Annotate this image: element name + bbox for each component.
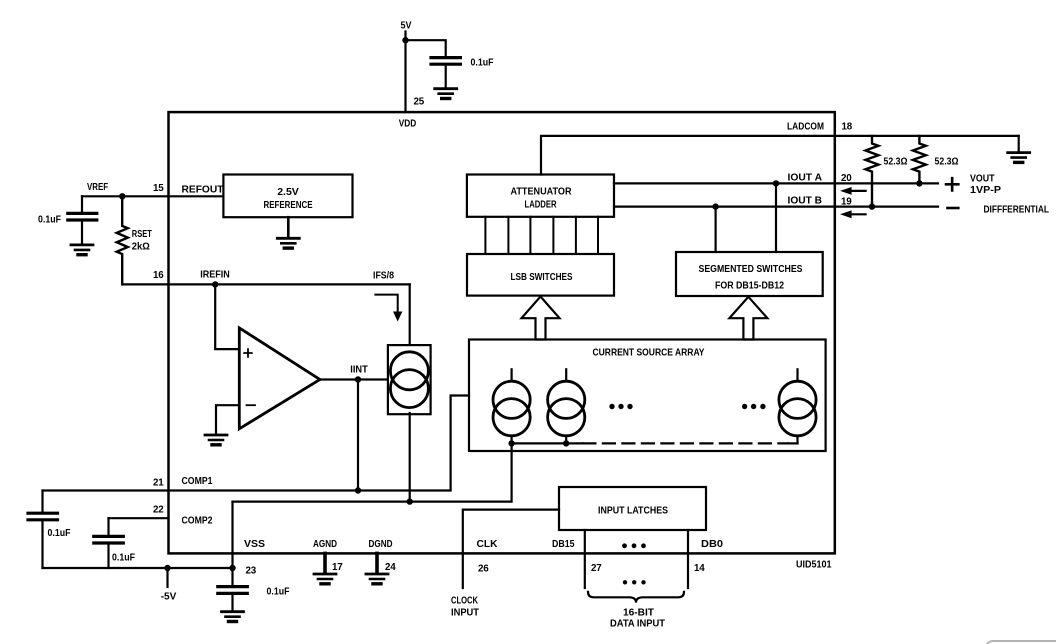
- block arrow to segmented switches: [729, 297, 767, 340]
- wire 5V to bypass cap: [406, 40, 446, 56]
- wire CLK elbow: [463, 510, 559, 588]
- wire reference to ground: [287, 217, 290, 237]
- wire cap C5 to ground: [231, 595, 233, 610]
- svg-text:24: 24: [385, 562, 396, 573]
- svg-text:VOUT: VOUT: [970, 174, 995, 185]
- capacitor C2 0.1uF: [68, 213, 97, 220]
- block ATTENUATOR LADDER: [467, 175, 614, 217]
- svg-text:VDD: VDD: [399, 119, 417, 130]
- svg-text:DB0: DB0: [701, 539, 723, 550]
- svg-text:23: 23: [246, 566, 257, 577]
- wire op-amp output IINT: [320, 378, 388, 380]
- svg-text:27: 27: [591, 563, 602, 574]
- node VREF junction: [119, 193, 125, 199]
- node array A2: [563, 440, 569, 446]
- capacitor C1 0.1uF: [431, 58, 460, 65]
- arrow IFS/8: [375, 295, 402, 322]
- svg-text:IINT: IINT: [350, 365, 368, 376]
- svg-text:CLOCK: CLOCK: [451, 596, 479, 607]
- wire cap C2 to ground: [81, 222, 83, 244]
- op-amp minus sign: [247, 404, 256, 406]
- svg-text:REFOUT: REFOUT: [182, 185, 224, 196]
- block SEGMENTED SWITCHES: [676, 252, 823, 296]
- ground (op-amp): [205, 435, 227, 445]
- svg-text:1VP-P: 1VP-P: [970, 185, 1001, 196]
- block arrow to LSB switches: [522, 297, 560, 340]
- wire DB0 pin 14: [687, 530, 689, 588]
- svg-text:16: 16: [153, 270, 164, 281]
- current source IFS/8 box: [388, 345, 431, 414]
- svg-text:LADDER: LADDER: [525, 199, 557, 211]
- svg-text:REFERENCE: REFERENCE: [264, 199, 313, 211]
- wire cap C4 to rail: [107, 545, 109, 568]
- ground (LADCOM): [1008, 153, 1030, 163]
- wire -5V stub: [166, 568, 168, 587]
- wire LADCOM rail: [541, 136, 1019, 175]
- wire COMP2 to cap: [107, 518, 109, 535]
- svg-text:AGND: AGND: [313, 539, 337, 550]
- node VSS pin 23 junction: [229, 565, 235, 571]
- svg-text:14: 14: [694, 563, 705, 574]
- svg-text:INPUT: INPUT: [451, 608, 479, 619]
- node R2 to IOUT A: [916, 180, 922, 186]
- wire COMP1 to cap: [41, 491, 43, 512]
- wire COMP2 pin 22 line: [109, 517, 169, 519]
- svg-text:COMP2: COMP2: [182, 516, 213, 527]
- svg-text:DGND: DGND: [369, 539, 393, 550]
- node R1 to IOUT B: [869, 203, 875, 209]
- svg-text:DIFFFERENTIAL: DIFFFERENTIAL: [984, 205, 1050, 216]
- brace 16-bit data input: [588, 592, 684, 603]
- svg-text:2kΩ: 2kΩ: [132, 242, 150, 253]
- svg-text:5V: 5V: [401, 21, 412, 32]
- svg-text:0.1uF: 0.1uF: [267, 587, 290, 598]
- svg-text:0.1uF: 0.1uF: [38, 215, 61, 226]
- node IREFIN junction: [212, 281, 218, 287]
- svg-text:UID5101: UID5101: [796, 560, 832, 571]
- op-amp U1: [239, 328, 320, 429]
- dots ellipsis data bus lower: [623, 580, 646, 584]
- wire IOUT A to segmented switches: [775, 183, 777, 252]
- wire VREF to cap: [81, 196, 83, 212]
- minus output symbol: [948, 207, 959, 210]
- ground (C5): [222, 612, 244, 622]
- pin DGND stub: [375, 553, 379, 572]
- svg-text:VSS: VSS: [244, 539, 265, 550]
- svg-text:IOUT B: IOUT B: [788, 196, 823, 207]
- svg-text:21: 21: [153, 478, 164, 489]
- ground (C1): [435, 89, 457, 99]
- svg-text:0.1uF: 0.1uF: [112, 553, 135, 564]
- svg-text:IREFIN: IREFIN: [200, 270, 230, 281]
- svg-text:2.5V: 2.5V: [277, 186, 299, 198]
- svg-text:DB15: DB15: [552, 539, 575, 550]
- svg-text:52.3Ω: 52.3Ω: [935, 157, 959, 168]
- ground (DGND): [366, 574, 388, 584]
- svg-text:CURRENT SOURCE ARRAY: CURRENT SOURCE ARRAY: [593, 347, 705, 359]
- svg-text:15: 15: [153, 183, 164, 194]
- dots ellipsis array right: [742, 404, 766, 409]
- arrow current direction IOUT B: [840, 210, 866, 218]
- current source A1: [493, 369, 530, 443]
- wire IREFIN pin 16 line: [122, 283, 410, 285]
- svg-text:52.3Ω: 52.3Ω: [884, 157, 908, 168]
- wire IFS/8 elbow into current source: [409, 284, 411, 345]
- wire op-amp inverting input: [216, 405, 239, 433]
- capacitor C3 0.1uF: [28, 513, 58, 520]
- svg-text:SEGMENTED SWITCHES: SEGMENTED SWITCHES: [699, 263, 803, 275]
- node IOUT A junction: [773, 180, 779, 186]
- dots ellipsis array left: [609, 404, 632, 409]
- block LSB SWITCHES: [467, 254, 614, 296]
- svg-text:17: 17: [332, 562, 343, 573]
- capacitor C5 0.1uF: [218, 587, 248, 594]
- dots ellipsis data bus upper: [622, 543, 646, 548]
- wire array common dashed: [583, 442, 788, 444]
- wire IINT down to COMP1: [357, 380, 359, 491]
- op-amp plus sign: [244, 349, 252, 357]
- node 5V junction: [402, 37, 408, 43]
- svg-text:RSET: RSET: [132, 229, 152, 240]
- block CURRENT SOURCE ARRAY: [469, 340, 826, 452]
- svg-text:VREF: VREF: [87, 182, 108, 193]
- wire IOUT B pin 19: [614, 206, 938, 208]
- svg-text:LADCOM: LADCOM: [787, 122, 824, 133]
- resistor R2 52.3: [913, 136, 926, 184]
- wire cap C1 to ground: [445, 66, 447, 88]
- wire VSS riser inside chip: [231, 502, 233, 568]
- svg-text:22: 22: [153, 505, 164, 516]
- current source IFS/8 circles: [390, 352, 428, 390]
- wire VREF line to pin 15: [82, 195, 223, 197]
- node IOUT B junction: [712, 203, 718, 209]
- wire IOUT B to segmented switches: [714, 207, 716, 252]
- wire -5V rail: [43, 567, 233, 569]
- block INPUT LATCHES: [559, 487, 706, 530]
- wire VSS to cap: [231, 568, 233, 585]
- svg-text:ATTENUATOR: ATTENUATOR: [511, 186, 572, 198]
- svg-text:18: 18: [842, 122, 853, 133]
- current source A2: [548, 369, 585, 443]
- svg-text:CLK: CLK: [477, 539, 499, 550]
- svg-text:INPUT LATCHES: INPUT LATCHES: [598, 505, 668, 517]
- wire cap C3 to rail: [41, 521, 43, 568]
- ground (C2): [71, 245, 93, 255]
- svg-text:DATA INPUT: DATA INPUT: [610, 619, 665, 630]
- svg-text:19: 19: [841, 197, 852, 208]
- ground (reference): [277, 238, 299, 248]
- wire internal comp line: [233, 443, 512, 501]
- svg-text:25: 25: [414, 97, 425, 108]
- chip outline UID5101: [169, 112, 835, 553]
- svg-text:16-BIT: 16-BIT: [623, 608, 654, 619]
- wire current source down: [409, 413, 411, 502]
- resistor R1 52.3: [866, 136, 879, 207]
- block 2.5V REFERENCE: [223, 175, 352, 218]
- arrow current direction IOUT A: [840, 187, 866, 195]
- node -5V junction: [164, 565, 170, 571]
- svg-text:-5V: -5V: [161, 592, 177, 603]
- svg-text:0.1uF: 0.1uF: [48, 528, 71, 539]
- svg-text:20: 20: [841, 173, 852, 184]
- wire IREFIN to op-amp + input: [215, 284, 239, 349]
- svg-text:IFS/8: IFS/8: [373, 271, 394, 282]
- svg-text:LSB SWITCHES: LSB SWITCHES: [511, 271, 573, 283]
- node array A1: [508, 440, 514, 446]
- resistor RSET 2k: [117, 196, 128, 284]
- ladder rungs: [485, 217, 598, 254]
- capacitor C4 0.1uF: [94, 536, 124, 543]
- wire LADCOM ground stub: [1018, 136, 1020, 151]
- wire 5V supply to pin 25: [404, 32, 406, 113]
- pin AGND stub: [323, 553, 327, 572]
- svg-text:COMP1: COMP1: [182, 476, 213, 487]
- svg-text:FOR DB15-DB12: FOR DB15-DB12: [715, 280, 784, 292]
- wire IOUT A pin 20: [614, 182, 938, 184]
- node COMP1 junction: [355, 487, 361, 493]
- wire array common solid: [512, 442, 584, 444]
- node current source / comp line: [407, 498, 413, 504]
- svg-text:0.1uF: 0.1uF: [471, 58, 494, 69]
- wire COMP1 pin 21 line: [43, 396, 470, 491]
- current source A3: [779, 369, 816, 443]
- wire array common right end: [788, 442, 798, 444]
- node IINT junction: [355, 376, 361, 382]
- UI overlay corner: [985, 640, 1056, 644]
- plus output symbol: [946, 178, 958, 190]
- svg-text:26: 26: [478, 564, 489, 575]
- ground (AGND): [314, 574, 336, 584]
- svg-text:IOUT A: IOUT A: [788, 173, 823, 184]
- wire DB15 pin 27: [584, 530, 586, 588]
